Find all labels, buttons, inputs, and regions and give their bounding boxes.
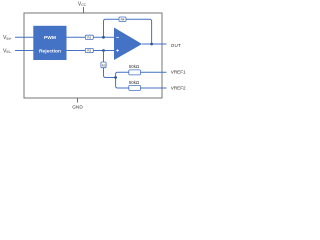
svg-text:R3: R3 <box>102 63 106 67</box>
wire op-amp output to OUT <box>142 43 167 45</box>
node C (output junction) <box>150 43 153 46</box>
svg-text:VIN+: VIN+ <box>3 35 12 41</box>
svg-text:VREF1: VREF1 <box>171 70 186 75</box>
svg-text:PWM: PWM <box>44 35 56 41</box>
svg-text:VIN–: VIN– <box>3 48 12 54</box>
svg-text:VCC: VCC <box>78 2 87 8</box>
wire Vin- input <box>15 50 34 52</box>
wire R1 to op-amp <box>93 36 114 38</box>
wire plus input to R3 <box>103 51 105 63</box>
wire block to R1 <box>67 36 86 38</box>
resistor 50k (VREF1) <box>129 64 141 75</box>
IC boundary box <box>24 13 162 98</box>
resistor R1 <box>85 35 93 39</box>
svg-text:50kΩ: 50kΩ <box>129 80 140 85</box>
wire block to R2 <box>67 50 86 52</box>
svg-text:R4: R4 <box>121 17 125 21</box>
wire to VREF2 <box>141 87 167 89</box>
resistor 50k (VREF2) <box>129 80 141 91</box>
resistor R2 <box>85 48 93 52</box>
svg-text:GND: GND <box>72 104 83 109</box>
svg-text:R1: R1 <box>87 36 91 40</box>
resistor R3 <box>101 62 106 68</box>
GND pin <box>72 98 83 109</box>
wire to VREF1 <box>141 71 167 73</box>
PWM Rejection block <box>33 26 66 60</box>
wire Vin+ input <box>15 36 34 38</box>
resistor R4 <box>119 17 126 22</box>
svg-text:Rejection: Rejection <box>39 48 61 54</box>
wire R3 to reference node <box>104 68 116 78</box>
wire feedback loop <box>104 19 152 44</box>
node B (plus input junction) <box>102 49 105 52</box>
Vcc pin <box>78 2 87 13</box>
svg-text:R2: R2 <box>87 49 91 53</box>
op-amp U1 <box>114 28 142 61</box>
node A (minus input junction) <box>102 36 105 39</box>
wire reference branch <box>116 72 129 88</box>
svg-text:OUT: OUT <box>171 43 181 48</box>
svg-text:50kΩ: 50kΩ <box>129 64 140 69</box>
wire R2 to op-amp <box>93 50 114 52</box>
node D (reference junction) <box>114 76 117 79</box>
svg-text:VREF2: VREF2 <box>171 86 186 91</box>
